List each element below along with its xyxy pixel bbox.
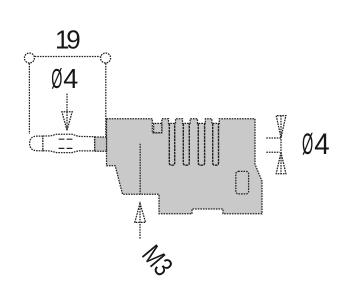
dim circle right	[101, 53, 111, 63]
svg-text:4: 4	[314, 128, 329, 161]
arrowhead O4 right lower	[276, 152, 286, 173]
slot 2	[183, 123, 189, 165]
internal edge line	[139, 144, 141, 195]
leader line O4 right lower	[266, 151, 280, 153]
arrowhead O4 right upper	[276, 116, 286, 138]
rectangular hole	[236, 171, 249, 194]
arrowhead O4 left	[62, 112, 72, 130]
arrowhead M3	[135, 203, 146, 222]
slot 3	[198, 123, 204, 165]
slot 1	[169, 123, 174, 165]
svg-text:19: 19	[55, 25, 80, 55]
svg-text:M3: M3	[136, 240, 178, 282]
plug shaft	[43, 134, 95, 152]
neck	[95, 137, 107, 151]
svg-text:Ø: Ø	[302, 127, 313, 160]
connector body	[107, 119, 263, 214]
leader line O4 left	[66, 94, 68, 130]
slot 4	[213, 123, 219, 165]
svg-text:Ø: Ø	[51, 63, 62, 94]
extension line right	[105, 63, 107, 137]
plug slot lower	[59, 147, 73, 149]
dimension line 19	[35, 56, 101, 58]
plug tip cap	[30, 136, 43, 151]
plug slot upper	[59, 138, 73, 140]
notch inner block	[154, 123, 162, 132]
leader line M3	[139, 203, 141, 239]
leader line O4 right upper	[266, 137, 281, 139]
svg-text:4: 4	[63, 63, 78, 94]
dim circle left	[24, 53, 34, 63]
extension line left	[28, 63, 30, 134]
dimension line O4 right	[280, 116, 282, 174]
